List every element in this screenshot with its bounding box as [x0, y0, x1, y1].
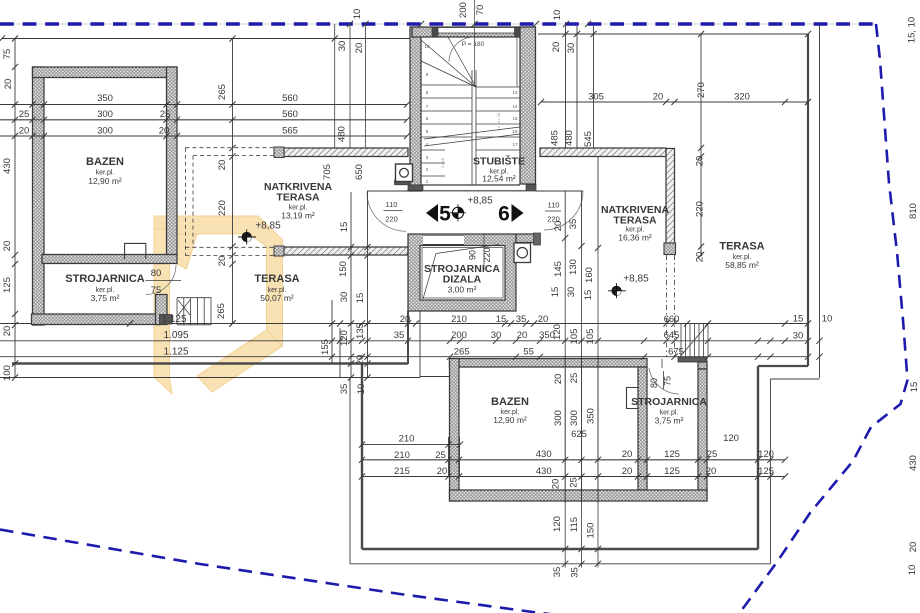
- svg-text:14: 14: [512, 104, 518, 109]
- svg-text:200: 200: [458, 2, 469, 18]
- section marker 5: [426, 204, 438, 222]
- svg-text:1.125: 1.125: [161, 314, 186, 325]
- section symbol: [450, 204, 466, 222]
- svg-text:20: 20: [2, 326, 13, 337]
- svg-text:545: 545: [583, 131, 594, 147]
- svg-text:20: 20: [553, 221, 564, 232]
- ticks top row: [347, 21, 353, 27]
- svg-text:13: 13: [512, 90, 518, 95]
- svg-text:1.125: 1.125: [163, 347, 188, 358]
- svg-text:265: 265: [454, 347, 470, 358]
- svg-text:20: 20: [354, 43, 365, 54]
- strojarnica dizala walls: [408, 234, 516, 311]
- svg-text:265: 265: [216, 303, 227, 319]
- svg-text:120: 120: [552, 516, 563, 532]
- svg-text:25: 25: [569, 373, 580, 384]
- svg-text:58,85 m²: 58,85 m²: [725, 260, 759, 270]
- svg-text:560: 560: [282, 109, 298, 120]
- svg-text:565: 565: [282, 126, 298, 137]
- svg-text:125: 125: [664, 449, 680, 460]
- svg-text:150: 150: [586, 523, 597, 539]
- bottom extension verticals: [564, 250, 566, 568]
- svg-text:16: 16: [512, 129, 518, 134]
- svg-text:20: 20: [517, 330, 528, 341]
- north symbol left: [238, 230, 256, 245]
- svg-text:30: 30: [339, 292, 350, 303]
- stair middle lines: [471, 70, 473, 185]
- svg-text:15: 15: [550, 287, 561, 298]
- top wall recess: [438, 27, 515, 33]
- svg-text:70: 70: [475, 5, 486, 16]
- svg-text:35: 35: [516, 314, 527, 325]
- annex bottom wall: [450, 490, 708, 501]
- thin outline step x420: [419, 311, 421, 378]
- svg-text:3,75 m²: 3,75 m²: [91, 293, 120, 303]
- pool ladder: [125, 243, 146, 259]
- top opening: [423, 235, 464, 246]
- stair top wall: [412, 27, 535, 37]
- svg-text:10: 10: [907, 565, 918, 576]
- natkrivena terasa upper wall: [284, 148, 408, 157]
- svg-text:215: 215: [394, 466, 410, 477]
- svg-text:12,90 m²: 12,90 m²: [493, 415, 527, 425]
- svg-text:560: 560: [282, 93, 298, 104]
- svg-text:705: 705: [322, 164, 333, 180]
- bazen left wall: [33, 67, 45, 325]
- svg-text:TERASA: TERASA: [719, 241, 764, 253]
- svg-text:105: 105: [569, 329, 580, 345]
- svg-text:350: 350: [586, 408, 597, 424]
- svg-text:50,07 m²: 50,07 m²: [260, 293, 294, 303]
- elevator interior diagonals: [436, 245, 499, 254]
- svg-text:220: 220: [695, 201, 706, 217]
- annex door arc 80/75: [649, 368, 679, 394]
- svg-text:30: 30: [337, 41, 348, 52]
- svg-text:6: 6: [498, 203, 510, 226]
- svg-text:150: 150: [338, 261, 349, 277]
- svg-text:15: 15: [355, 293, 366, 304]
- annex left edge heavy: [361, 364, 363, 550]
- svg-text:430: 430: [2, 158, 13, 174]
- winder diagonals: [421, 61, 476, 87]
- svg-text:3,75 m²: 3,75 m²: [655, 416, 684, 426]
- slab edge heavy: [12, 362, 408, 364]
- dimension row 1.125/660: [0, 323, 808, 325]
- sq-circle symbol right: [514, 243, 531, 263]
- svg-text:16,36 m²: 16,36 m²: [618, 233, 652, 243]
- svg-text:20: 20: [653, 92, 664, 103]
- lower pool ladder: [627, 388, 639, 409]
- dash-dot extension lines: [666, 255, 668, 357]
- svg-text:25: 25: [707, 449, 718, 460]
- overlay dimension lines over walls: [0, 104, 407, 106]
- dimension row 1.095/645: [0, 340, 808, 342]
- svg-text:TERASA: TERASA: [276, 192, 320, 204]
- svg-text:480: 480: [337, 126, 348, 142]
- svg-text:20: 20: [19, 126, 30, 137]
- svg-text:3 x 16: 3 x 16: [441, 158, 445, 168]
- svg-text:75: 75: [663, 376, 673, 386]
- svg-text:12,90 m²: 12,90 m²: [88, 176, 122, 186]
- svg-text:+8,85: +8,85: [623, 274, 649, 285]
- ticks lower rows: [362, 444, 460, 446]
- svg-text:350: 350: [97, 93, 113, 104]
- wall cap: [160, 315, 173, 325]
- svg-text:35: 35: [339, 384, 350, 395]
- stair steps right flight: [476, 97, 520, 99]
- svg-text:15: 15: [909, 382, 920, 393]
- svg-text:650: 650: [354, 164, 365, 180]
- svg-text:20: 20: [695, 156, 706, 167]
- dimension row 1.125/675: [0, 356, 808, 358]
- watermark logo: [154, 216, 283, 394]
- svg-text:480: 480: [564, 130, 575, 146]
- svg-text:120: 120: [723, 433, 739, 444]
- svg-text:55: 55: [523, 347, 534, 358]
- dim extension 200/70: [474, 0, 476, 87]
- annex pool top wall: [450, 359, 648, 368]
- stair left wall: [410, 27, 421, 191]
- svg-text:120: 120: [552, 324, 563, 340]
- svg-text:BAZEN: BAZEN: [86, 156, 124, 168]
- stair right wall: [520, 27, 536, 184]
- annex left wall: [450, 359, 460, 502]
- svg-text:270: 270: [696, 82, 707, 98]
- svg-text:10: 10: [356, 384, 367, 395]
- left upper vertical dimension line: [14, 39, 16, 378]
- svg-text:660: 660: [664, 314, 680, 325]
- svg-text:30: 30: [566, 43, 577, 54]
- svg-text:15, 10: 15, 10: [907, 17, 918, 43]
- svg-text:130: 130: [568, 259, 579, 275]
- dashed terrace boundary: [185, 147, 274, 149]
- stair break lines: [424, 134, 520, 146]
- strojarnica door arc 80/75: [146, 265, 176, 295]
- right outdoor stair: [680, 324, 682, 357]
- svg-text:220: 220: [217, 200, 228, 216]
- small exterior stair: [176, 298, 178, 325]
- stair steps left flight: [421, 84, 472, 86]
- svg-text:10: 10: [552, 10, 563, 21]
- svg-text:80: 80: [151, 268, 162, 279]
- stubiste south wall lines: [421, 184, 520, 186]
- dimension row 350/560: [0, 104, 407, 106]
- svg-text:105: 105: [585, 329, 596, 345]
- svg-text:30: 30: [793, 330, 804, 341]
- svg-text:300: 300: [553, 410, 564, 426]
- top wall right extension: [516, 234, 534, 243]
- svg-text:100: 100: [2, 365, 13, 381]
- svg-text:305: 305: [588, 92, 604, 103]
- svg-text:20: 20: [217, 256, 228, 267]
- bazen top wall: [33, 67, 178, 78]
- terrace step heavy: [758, 365, 808, 367]
- wall caps dark: [432, 27, 438, 37]
- svg-text:320: 320: [734, 92, 750, 103]
- svg-text:STUBIŠTE: STUBIŠTE: [473, 155, 525, 168]
- svg-text:20: 20: [3, 79, 14, 90]
- svg-text:10: 10: [424, 44, 430, 49]
- north symbol right: [608, 283, 626, 298]
- svg-text:25: 25: [160, 109, 171, 120]
- svg-text:35: 35: [552, 567, 563, 578]
- svg-text:645: 645: [664, 330, 680, 341]
- svg-text:160: 160: [584, 267, 595, 283]
- svg-text:675: 675: [668, 347, 684, 358]
- svg-text:20: 20: [2, 241, 13, 252]
- svg-text:TERASA: TERASA: [254, 273, 299, 285]
- svg-text:300: 300: [97, 126, 113, 137]
- terrace right edge heavy: [807, 34, 809, 366]
- svg-text:20: 20: [908, 542, 919, 553]
- svg-text:P = 180: P = 180: [462, 41, 485, 48]
- svg-text:13,19 m²: 13,19 m²: [281, 211, 315, 221]
- svg-text:15: 15: [512, 116, 518, 121]
- svg-text:220: 220: [385, 215, 398, 224]
- annex bottom edge heavy: [362, 548, 758, 550]
- svg-text:220: 220: [482, 247, 492, 262]
- svg-text:+8,85: +8,85: [467, 196, 493, 207]
- annex divider wall: [638, 367, 647, 490]
- svg-text:20: 20: [159, 126, 170, 137]
- svg-text:430: 430: [908, 455, 919, 471]
- svg-text:10: 10: [352, 9, 363, 20]
- svg-text:+8,85: +8,85: [255, 221, 281, 232]
- svg-text:15: 15: [496, 314, 507, 325]
- svg-text:TERASA: TERASA: [613, 215, 657, 227]
- natkrivena terasa lower wall: [284, 247, 408, 255]
- svg-text:12,54 m²: 12,54 m²: [482, 174, 516, 184]
- svg-text:BAZEN: BAZEN: [491, 396, 529, 408]
- thin outline right: [819, 25, 821, 378]
- stubiste right door arc 110/220: [544, 191, 583, 230]
- stubiste left door arc 110/220: [367, 192, 406, 231]
- svg-text:STROJARNICA: STROJARNICA: [631, 396, 707, 408]
- svg-text:110: 110: [386, 200, 398, 209]
- stair-left extension verticals: [334, 24, 336, 148]
- svg-text:135: 135: [355, 323, 366, 339]
- right terrace vertical wall: [666, 149, 675, 244]
- svg-text:125: 125: [2, 277, 13, 293]
- svg-text:20: 20: [622, 466, 633, 477]
- svg-text:35: 35: [570, 567, 581, 578]
- svg-text:120: 120: [758, 449, 774, 460]
- svg-text:20: 20: [538, 314, 549, 325]
- svg-text:485: 485: [550, 130, 561, 146]
- svg-text:30: 30: [491, 330, 502, 341]
- svg-text:430: 430: [536, 466, 552, 477]
- svg-text:30: 30: [566, 287, 577, 298]
- edge heavy x408: [407, 311, 409, 364]
- svg-text:155: 155: [320, 339, 331, 355]
- parcel boundary dashed blue: [0, 23, 876, 25]
- right terrace top wall: [540, 148, 666, 157]
- annex right edge heavy: [757, 366, 759, 549]
- strojarnica right wall piece: [156, 295, 168, 325]
- wall end cap: [664, 243, 676, 255]
- svg-text:20: 20: [553, 374, 564, 385]
- lower-left extension verticals: [448, 437, 450, 477]
- svg-text:80: 80: [649, 378, 659, 388]
- svg-text:10: 10: [822, 314, 833, 325]
- svg-text:90: 90: [468, 250, 478, 260]
- svg-text:17: 17: [512, 142, 518, 147]
- svg-text:210: 210: [451, 314, 467, 325]
- svg-text:430: 430: [536, 449, 552, 460]
- svg-text:15: 15: [793, 314, 804, 325]
- svg-text:110: 110: [548, 201, 560, 210]
- ticks row 102: [538, 99, 544, 105]
- annex top wall right block: [678, 357, 707, 362]
- svg-text:125: 125: [758, 466, 774, 477]
- 265 vertical line: [232, 39, 234, 324]
- elevator door dim lines: [483, 234, 485, 270]
- svg-text:75: 75: [151, 285, 162, 296]
- ticks upper-left rows: [29, 101, 35, 107]
- dimension row 300-20/565: [0, 135, 407, 137]
- svg-text:20: 20: [706, 466, 717, 477]
- bazen bottom wall / partition: [42, 255, 177, 264]
- ticks mid rows: [127, 320, 133, 326]
- svg-text:20: 20: [217, 160, 228, 171]
- svg-text:210: 210: [399, 433, 415, 444]
- svg-text:20: 20: [400, 314, 411, 325]
- svg-text:20: 20: [355, 355, 366, 366]
- svg-text:8 x 16 = 28: 8 x 16 = 28: [497, 113, 501, 131]
- svg-text:5: 5: [439, 203, 451, 226]
- landing edge: [476, 86, 520, 88]
- svg-text:15: 15: [583, 290, 594, 301]
- svg-text:115: 115: [569, 517, 580, 532]
- svg-text:20: 20: [622, 449, 633, 460]
- building outline top-right: [538, 33, 808, 35]
- bazen right wall: [167, 67, 178, 255]
- svg-text:300: 300: [97, 109, 113, 120]
- svg-text:200: 200: [451, 330, 467, 341]
- building outline top-left: [2, 38, 412, 40]
- walk line arc: [449, 37, 474, 62]
- svg-text:120: 120: [339, 330, 350, 346]
- svg-text:20: 20: [437, 466, 448, 477]
- svg-text:15: 15: [339, 222, 350, 233]
- svg-text:125: 125: [664, 466, 680, 477]
- right door extension verticals: [564, 191, 566, 250]
- svg-text:35: 35: [568, 219, 579, 230]
- svg-text:300: 300: [569, 410, 580, 426]
- svg-text:25: 25: [19, 109, 30, 120]
- svg-text:265: 265: [217, 84, 228, 100]
- upper right extension verticals: [565, 26, 567, 148]
- svg-text:STROJARNICA: STROJARNICA: [65, 273, 145, 285]
- svg-text:1.095: 1.095: [163, 330, 188, 341]
- svg-text:20: 20: [695, 252, 706, 263]
- svg-text:35: 35: [394, 330, 405, 341]
- stair break X: [178, 300, 190, 315]
- central extension verticals: [331, 300, 333, 364]
- svg-text:20: 20: [551, 42, 562, 53]
- svg-text:25: 25: [569, 477, 580, 488]
- svg-text:3,00 m²: 3,00 m²: [448, 285, 477, 295]
- lower outline thin: [0, 377, 420, 379]
- svg-text:810: 810: [908, 203, 919, 219]
- annex right wall: [698, 369, 707, 500]
- sq-circle symbol left of stair: [396, 164, 413, 182]
- svg-text:20: 20: [551, 479, 562, 490]
- svg-text:75: 75: [2, 49, 13, 60]
- strojarnica bottom wall: [32, 314, 160, 325]
- svg-text:145: 145: [553, 261, 564, 277]
- dimension row 300-25/560: [0, 119, 407, 121]
- svg-text:625: 625: [571, 429, 587, 440]
